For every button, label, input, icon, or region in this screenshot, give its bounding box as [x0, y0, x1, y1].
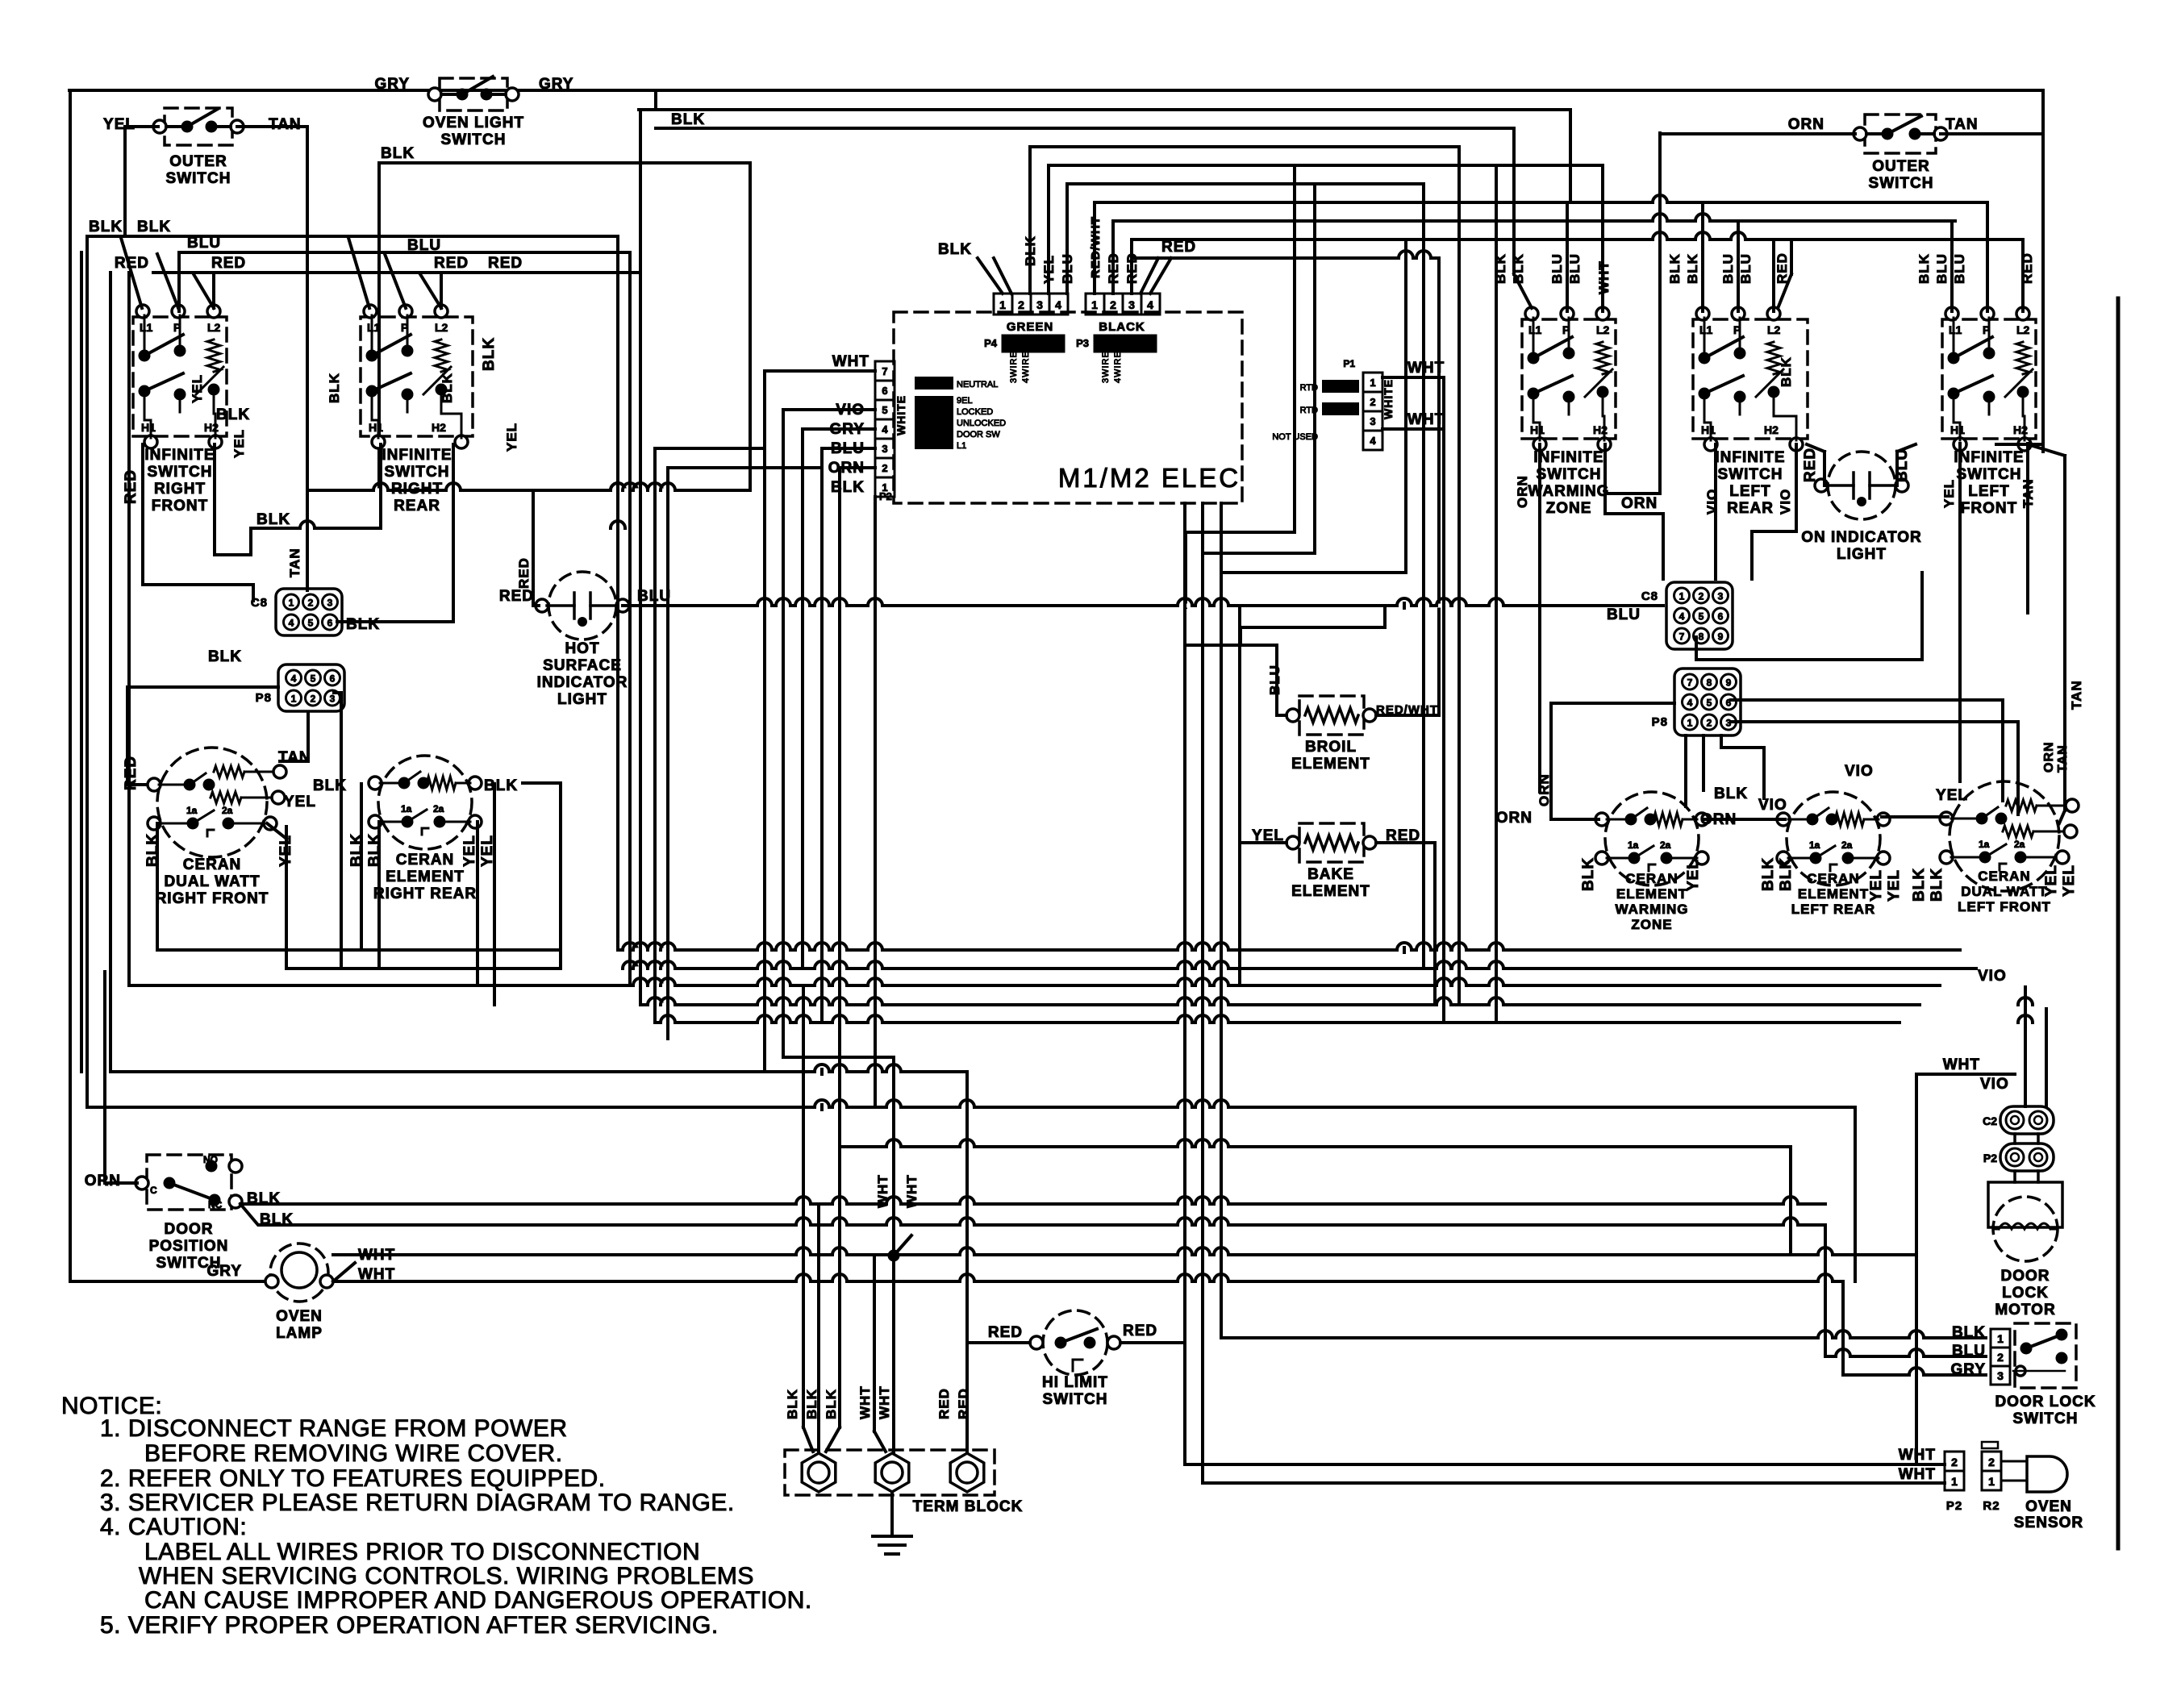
svg-text:YEL: YEL [1941, 479, 1957, 508]
svg-text:L1: L1 [1699, 323, 1713, 336]
svg-text:SWITCH: SWITCH [1718, 466, 1783, 483]
svg-text:1: 1 [291, 694, 297, 705]
svg-text:3: 3 [330, 694, 336, 705]
svg-text:5: 5 [311, 673, 316, 685]
svg-text:2: 2 [1951, 1456, 1958, 1468]
svg-text:4: 4 [1055, 298, 1061, 311]
svg-text:FRONT: FRONT [152, 498, 208, 514]
svg-text:2a: 2a [433, 803, 444, 814]
svg-text:6: 6 [330, 673, 336, 685]
svg-text:NEUTRAL: NEUTRAL [957, 380, 998, 390]
svg-text:ORN: ORN [1788, 116, 1824, 133]
svg-text:8: 8 [1699, 631, 1704, 643]
svg-text:BLK: BLK [1511, 253, 1526, 284]
svg-text:P4: P4 [984, 337, 998, 349]
svg-text:CERAN: CERAN [1807, 871, 1859, 886]
svg-text:INFINITE: INFINITE [382, 447, 452, 464]
svg-text:2a: 2a [222, 805, 233, 816]
svg-text:8: 8 [1707, 677, 1712, 689]
svg-text:VIO: VIO [1704, 489, 1720, 514]
svg-text:DOOR: DOOR [2001, 1268, 2050, 1285]
svg-text:4: 4 [1687, 698, 1693, 709]
svg-text:MOTOR: MOTOR [1995, 1302, 2055, 1318]
svg-text:BLK: BLK [256, 511, 290, 528]
svg-text:LEFT: LEFT [1729, 483, 1771, 500]
svg-text:P2: P2 [1946, 1499, 1962, 1513]
svg-text:4WIRE: 4WIRE [1021, 351, 1031, 383]
svg-text:GRY: GRY [207, 1263, 242, 1280]
svg-text:TAN: TAN [269, 116, 302, 133]
svg-text:RED: RED [936, 1388, 952, 1419]
svg-text:FRONT: FRONT [1961, 500, 2017, 517]
svg-text:TAN: TAN [2020, 478, 2036, 508]
svg-text:OUTER: OUTER [1872, 158, 1930, 175]
svg-text:YEL: YEL [284, 794, 316, 810]
svg-text:YEL: YEL [231, 429, 247, 458]
svg-text:INFINITE: INFINITE [1533, 449, 1603, 466]
svg-text:6: 6 [327, 618, 333, 629]
svg-text:BLK: BLK [327, 373, 342, 403]
svg-text:6: 6 [882, 385, 887, 397]
svg-text:BLU: BLU [1267, 664, 1282, 695]
svg-text:WHITE: WHITE [895, 395, 907, 435]
svg-text:2: 2 [311, 694, 316, 705]
svg-text:LABEL ALL WIRES PRIOR TO DISCO: LABEL ALL WIRES PRIOR TO DISCONNECTION [144, 1539, 700, 1565]
svg-text:9: 9 [1718, 631, 1724, 643]
svg-text:BLK: BLK [484, 777, 518, 794]
svg-text:WHITE: WHITE [1382, 379, 1395, 419]
svg-text:YEL: YEL [1936, 787, 1968, 804]
svg-text:WARMING: WARMING [1615, 902, 1688, 917]
svg-text:4: 4 [882, 423, 888, 435]
svg-text:5. VERIFY PROPER OPERATION AF: 5. VERIFY PROPER OPERATION AFTER SERVICI… [100, 1612, 719, 1639]
svg-text:1. DISCONNECT RANGE FROM POWE: 1. DISCONNECT RANGE FROM POWER [100, 1415, 568, 1442]
svg-text:1: 1 [999, 298, 1006, 311]
svg-text:BLK: BLK [1952, 1324, 1986, 1341]
svg-text:H1: H1 [1950, 423, 1965, 436]
svg-text:1: 1 [1997, 1332, 2004, 1345]
svg-text:5: 5 [1699, 611, 1704, 623]
svg-text:2: 2 [882, 462, 887, 474]
svg-text:P8: P8 [256, 691, 272, 705]
svg-text:BLK: BLK [824, 1389, 839, 1419]
svg-text:ELEMENT: ELEMENT [1291, 883, 1370, 900]
svg-text:LIGHT: LIGHT [557, 691, 607, 708]
svg-text:DOOR: DOOR [165, 1221, 214, 1238]
svg-text:1a: 1a [401, 803, 412, 814]
svg-text:7: 7 [882, 365, 887, 377]
svg-text:UNLOCKED: UNLOCKED [957, 419, 1006, 428]
svg-text:RED: RED [488, 255, 523, 272]
svg-text:C8: C8 [1641, 589, 1658, 603]
svg-text:H2: H2 [1764, 423, 1779, 436]
svg-text:BLK: BLK [313, 777, 347, 794]
svg-text:P2: P2 [879, 490, 892, 502]
svg-text:WHT: WHT [832, 353, 869, 370]
svg-text:TAN: TAN [2056, 744, 2070, 773]
svg-text:SWITCH: SWITCH [148, 464, 213, 481]
svg-text:SWITCH: SWITCH [2013, 1410, 2079, 1427]
svg-text:TAN: TAN [2069, 680, 2084, 710]
svg-text:RIGHT: RIGHT [391, 481, 443, 498]
svg-text:6: 6 [1718, 611, 1724, 623]
svg-text:4WIRE: 4WIRE [1113, 351, 1123, 383]
svg-text:L1: L1 [1949, 323, 1962, 336]
svg-text:BLK: BLK [1685, 253, 1700, 284]
svg-text:1: 1 [1091, 298, 1098, 311]
svg-text:OVEN LIGHT: OVEN LIGHT [423, 115, 524, 131]
svg-text:BLACK: BLACK [1099, 320, 1145, 334]
svg-text:YEL: YEL [190, 374, 205, 403]
svg-text:2a: 2a [2014, 839, 2025, 850]
svg-text:LOCK: LOCK [2002, 1285, 2049, 1302]
svg-text:BLK: BLK [1916, 253, 1932, 284]
svg-text:YEL: YEL [504, 423, 519, 452]
svg-text:VIO: VIO [1845, 763, 1874, 780]
svg-text:RED: RED [1123, 1323, 1157, 1339]
svg-text:DOOR LOCK: DOOR LOCK [1995, 1393, 2096, 1410]
svg-text:1a: 1a [186, 805, 198, 816]
svg-text:P1: P1 [1343, 358, 1355, 369]
svg-text:BLK: BLK [1493, 253, 1508, 284]
svg-text:2a: 2a [1841, 839, 1853, 851]
svg-text:LEFT REAR: LEFT REAR [1791, 902, 1875, 917]
svg-text:BLU: BLU [1607, 606, 1641, 623]
svg-text:BLK: BLK [1779, 356, 1794, 387]
svg-text:L1: L1 [367, 321, 381, 334]
svg-text:HI LIMIT: HI LIMIT [1042, 1374, 1108, 1391]
svg-text:RED: RED [516, 557, 532, 589]
svg-text:2: 2 [1370, 396, 1375, 408]
svg-text:L2: L2 [1767, 323, 1781, 336]
svg-text:RED: RED [988, 1324, 1023, 1341]
svg-text:5: 5 [882, 404, 887, 416]
svg-text:BLK: BLK [671, 111, 705, 128]
svg-text:CERAN: CERAN [183, 856, 242, 873]
svg-text:BLU: BLU [187, 235, 221, 252]
svg-text:2: 2 [1997, 1351, 2004, 1364]
svg-text:4: 4 [289, 618, 294, 629]
svg-text:GREEN: GREEN [1007, 320, 1053, 334]
svg-text:ELEMENT: ELEMENT [386, 869, 465, 885]
svg-text:L1: L1 [1528, 323, 1542, 336]
svg-text:WHT: WHT [857, 1385, 873, 1419]
svg-text:SURFACE: SURFACE [543, 657, 622, 674]
svg-text:YEL: YEL [461, 835, 478, 867]
svg-text:VIO: VIO [1978, 968, 2007, 985]
svg-text:OUTER: OUTER [169, 153, 227, 170]
svg-text:GRY: GRY [375, 76, 410, 93]
svg-text:LEFT FRONT: LEFT FRONT [1958, 899, 2051, 914]
svg-text:RED: RED [123, 469, 140, 504]
svg-text:4: 4 [1370, 435, 1376, 447]
svg-text:BLU: BLU [1720, 253, 1736, 284]
svg-text:RIGHT FRONT: RIGHT FRONT [156, 890, 269, 907]
svg-text:L2: L2 [207, 321, 221, 334]
svg-text:TAN: TAN [278, 749, 311, 766]
svg-text:L1: L1 [957, 441, 966, 451]
svg-text:RED: RED [956, 1388, 971, 1419]
svg-text:WHT: WHT [1899, 1466, 1936, 1483]
svg-text:BLK: BLK [137, 219, 171, 235]
svg-text:WHT: WHT [877, 1385, 892, 1419]
svg-text:1: 1 [289, 598, 294, 609]
svg-text:BLK: BLK [481, 337, 498, 371]
svg-text:HOT: HOT [565, 640, 599, 657]
svg-text:2: 2 [308, 598, 314, 609]
svg-text:SWITCH: SWITCH [166, 170, 231, 187]
svg-text:LIGHT: LIGHT [1837, 546, 1887, 563]
svg-text:BLK: BLK [785, 1389, 800, 1419]
svg-text:1: 1 [1370, 377, 1375, 389]
svg-text:7: 7 [1679, 631, 1685, 643]
svg-text:C: C [150, 1185, 157, 1196]
svg-text:NC: NC [208, 1199, 223, 1210]
svg-text:YEL: YEL [2043, 864, 2060, 897]
svg-text:L2: L2 [2016, 323, 2030, 336]
svg-text:DUAL WATT: DUAL WATT [164, 873, 260, 890]
svg-text:CERAN: CERAN [1978, 869, 2030, 884]
svg-text:9: 9 [1726, 677, 1732, 689]
svg-text:ZONE: ZONE [1631, 917, 1672, 932]
svg-text:4: 4 [1147, 298, 1153, 311]
svg-text:WHT: WHT [358, 1266, 395, 1283]
svg-text:1: 1 [1687, 718, 1693, 729]
svg-text:P2: P2 [1983, 1152, 1997, 1164]
svg-text:L1: L1 [140, 321, 153, 334]
svg-text:1a: 1a [1979, 839, 1990, 850]
svg-text:INFINITE: INFINITE [1954, 449, 2024, 466]
svg-text:ON INDICATOR: ON INDICATOR [1801, 529, 1922, 546]
svg-text:BLK: BLK [1929, 868, 1945, 902]
svg-text:3: 3 [1370, 415, 1375, 427]
svg-text:ORN: ORN [2042, 741, 2056, 773]
svg-text:P8: P8 [1652, 715, 1668, 729]
svg-text:LEFT: LEFT [1968, 483, 2010, 500]
svg-text:ELEMENT: ELEMENT [1798, 886, 1869, 902]
svg-text:OVEN: OVEN [2025, 1498, 2072, 1515]
svg-text:BLK: BLK [1778, 857, 1795, 891]
svg-text:BLK: BLK [831, 479, 865, 496]
svg-text:WHT: WHT [904, 1174, 920, 1208]
svg-text:BLK: BLK [938, 241, 972, 258]
svg-text:VIO: VIO [1778, 489, 1793, 514]
svg-text:GRY: GRY [539, 76, 573, 93]
svg-text:BAKE: BAKE [1307, 866, 1354, 883]
svg-text:3: 3 [327, 598, 333, 609]
svg-text:4. CAUTION:: 4. CAUTION: [100, 1514, 247, 1540]
svg-text:M1/M2 ELEC: M1/M2 ELEC [1058, 463, 1241, 493]
svg-text:BLK: BLK [89, 219, 123, 235]
svg-text:2: 2 [1110, 298, 1116, 311]
svg-text:YEL: YEL [2061, 864, 2078, 897]
svg-text:TAN: TAN [287, 548, 302, 577]
svg-text:ORN: ORN [1515, 475, 1530, 508]
svg-text:BLK: BLK [208, 648, 242, 665]
svg-text:INFINITE: INFINITE [1715, 449, 1785, 466]
svg-text:SENSOR: SENSOR [2014, 1514, 2083, 1531]
svg-text:YEL: YEL [1886, 869, 1903, 902]
svg-text:1: 1 [1988, 1475, 1995, 1488]
svg-text:INFINITE: INFINITE [144, 447, 215, 464]
svg-text:2: 2 [1707, 718, 1712, 729]
svg-text:WHT: WHT [1596, 260, 1612, 294]
svg-text:BLU: BLU [407, 237, 441, 254]
svg-text:YEL: YEL [1685, 859, 1702, 891]
svg-text:3. SERVICER PLEASE RETURN DIA: 3. SERVICER PLEASE RETURN DIAGRAM TO RAN… [100, 1489, 735, 1516]
svg-text:BLK: BLK [440, 373, 455, 403]
svg-text:9EL: 9EL [957, 396, 973, 406]
svg-text:BLU: BLU [1549, 253, 1565, 284]
svg-text:4: 4 [1679, 611, 1685, 623]
svg-text:DOOR SW: DOOR SW [957, 430, 1000, 439]
svg-text:3: 3 [1036, 298, 1043, 311]
svg-text:RED: RED [211, 255, 246, 272]
svg-text:BLU: BLU [1934, 253, 1950, 284]
svg-text:5: 5 [308, 618, 314, 629]
svg-text:SWITCH: SWITCH [385, 464, 450, 481]
svg-text:BLU: BLU [1738, 253, 1754, 284]
svg-text:LOCKED: LOCKED [957, 407, 993, 417]
svg-text:RIGHT REAR: RIGHT REAR [373, 885, 477, 902]
svg-text:REAR: REAR [394, 498, 440, 514]
svg-text:L2: L2 [1596, 323, 1610, 336]
svg-text:BLK: BLK [1667, 253, 1683, 284]
svg-text:ELEMENT: ELEMENT [1291, 756, 1370, 773]
svg-text:BLK: BLK [381, 145, 415, 162]
svg-text:RED: RED [1802, 448, 1819, 482]
svg-text:YEL: YEL [103, 116, 136, 133]
svg-text:SWITCH: SWITCH [1043, 1391, 1108, 1408]
svg-text:BLK: BLK [346, 616, 380, 633]
svg-text:CAN CAUSE IMPROPER AND DANGERO: CAN CAUSE IMPROPER AND DANGEROUS OPERATI… [144, 1587, 812, 1614]
svg-text:BLK: BLK [216, 406, 250, 423]
svg-text:3: 3 [1128, 298, 1135, 311]
svg-text:5: 5 [1707, 698, 1712, 709]
svg-text:VIO: VIO [1980, 1076, 2009, 1093]
svg-text:RED: RED [2020, 252, 2035, 284]
svg-text:1: 1 [1951, 1475, 1958, 1488]
svg-text:RIGHT: RIGHT [154, 481, 206, 498]
svg-text:WHT: WHT [1899, 1447, 1936, 1464]
svg-text:3: 3 [882, 443, 887, 455]
svg-text:2: 2 [1018, 298, 1024, 311]
svg-text:ORN: ORN [1496, 810, 1533, 827]
svg-text:CERAN: CERAN [396, 852, 455, 869]
svg-text:ORN: ORN [85, 1173, 121, 1189]
svg-text:H2: H2 [432, 421, 446, 434]
svg-text:C2: C2 [1983, 1114, 1997, 1127]
svg-text:3WIRE: 3WIRE [1009, 351, 1019, 383]
svg-text:INDICATOR: INDICATOR [537, 674, 628, 691]
svg-text:OVEN: OVEN [276, 1308, 323, 1325]
svg-text:BLU: BLU [1952, 1343, 1986, 1360]
svg-text:H1: H1 [1701, 423, 1716, 436]
svg-text:SWITCH: SWITCH [441, 131, 507, 148]
svg-text:P3: P3 [1076, 337, 1089, 349]
svg-text:BLK: BLK [1714, 785, 1748, 802]
svg-text:BLK: BLK [1760, 857, 1777, 891]
svg-text:BLU: BLU [1567, 253, 1583, 284]
svg-text:POSITION: POSITION [149, 1238, 229, 1255]
svg-text:TAN: TAN [1945, 116, 1979, 133]
svg-text:WHEN SERVICING CONTROLS. WIRIN: WHEN SERVICING CONTROLS. WIRING PROBLEMS [139, 1563, 754, 1589]
svg-text:1a: 1a [1809, 839, 1820, 851]
svg-text:2: 2 [1699, 591, 1704, 602]
svg-text:DUAL WATT: DUAL WATT [1961, 884, 2048, 899]
svg-text:LAMP: LAMP [276, 1325, 323, 1342]
svg-text:3: 3 [1997, 1369, 2004, 1382]
svg-text:H1: H1 [1530, 423, 1545, 436]
svg-text:2: 2 [1988, 1456, 1995, 1468]
svg-text:YEL: YEL [1868, 869, 1885, 902]
svg-text:RED: RED [434, 255, 469, 272]
svg-text:REAR: REAR [1727, 500, 1774, 517]
svg-text:ELEMENT: ELEMENT [1616, 886, 1687, 902]
svg-text:H1: H1 [369, 421, 383, 434]
svg-text:2a: 2a [1660, 839, 1671, 851]
svg-text:1: 1 [1679, 591, 1685, 602]
svg-text:SWITCH: SWITCH [1957, 466, 2022, 483]
svg-text:RED: RED [1161, 239, 1196, 256]
svg-text:3: 3 [1718, 591, 1724, 602]
svg-text:ZONE: ZONE [1546, 500, 1592, 517]
svg-text:BLK: BLK [1911, 868, 1928, 902]
svg-text:BEFORE REMOVING WIRE COVER.: BEFORE REMOVING WIRE COVER. [144, 1440, 563, 1467]
svg-text:2. REFER ONLY TO FEATURES EQU: 2. REFER ONLY TO FEATURES EQUIPPED. [100, 1465, 606, 1492]
svg-text:R2: R2 [1983, 1499, 2000, 1513]
svg-text:H1: H1 [141, 421, 156, 434]
svg-text:NO: NO [203, 1154, 218, 1165]
svg-text:SWITCH: SWITCH [1869, 175, 1934, 192]
svg-text:GRY: GRY [1951, 1361, 1986, 1378]
svg-text:BLK: BLK [1580, 857, 1597, 891]
svg-text:RED: RED [499, 588, 534, 605]
svg-text:CERAN: CERAN [1625, 871, 1678, 886]
svg-text:BLU: BLU [1952, 253, 1967, 284]
svg-text:TERM BLOCK: TERM BLOCK [913, 1498, 1024, 1515]
svg-text:SWITCH: SWITCH [1537, 466, 1602, 483]
svg-text:RED: RED [1774, 252, 1790, 284]
svg-text:4: 4 [291, 673, 297, 685]
svg-text:1a: 1a [1628, 839, 1639, 851]
svg-text:7: 7 [1687, 677, 1693, 689]
svg-text:BROIL: BROIL [1305, 739, 1357, 756]
svg-text:BLK: BLK [804, 1389, 819, 1419]
svg-text:WHT: WHT [1943, 1056, 1980, 1073]
svg-text:3WIRE: 3WIRE [1101, 351, 1111, 383]
svg-text:ORN: ORN [1621, 495, 1658, 512]
svg-text:L2: L2 [435, 321, 448, 334]
